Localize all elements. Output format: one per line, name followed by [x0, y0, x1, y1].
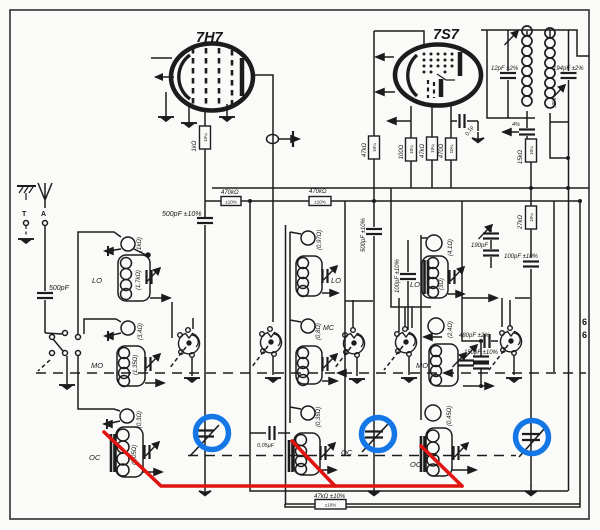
coupling loop 3.4: [121, 321, 135, 335]
svg-text:100Ω: 100Ω: [399, 144, 405, 159]
svg-text:190pF: 190pF: [471, 243, 488, 249]
capacitor 12pF: [507, 30, 509, 118]
rotary switch S2e: [500, 326, 522, 356]
resistors under 7S7: [369, 31, 457, 227]
capacitor 0.1u: [451, 121, 478, 131]
svg-text:10¼: 10¼: [430, 144, 435, 153]
svg-text:500pF ±10%: 500pF ±10%: [162, 211, 202, 218]
resistor 470k right: [309, 197, 331, 206]
wire grid3: [391, 188, 412, 328]
svg-text:±2%: ±2%: [552, 97, 558, 108]
coupling loop 0.3: [120, 409, 134, 423]
tube 7H7: [151, 44, 253, 111]
band switch S1 contacts: [38, 331, 81, 372]
coupling loop 4.1: [426, 235, 442, 251]
coupling loop 0.97: [301, 231, 315, 245]
svg-text:12pF ±2%: 12pF ±2%: [491, 66, 519, 72]
svg-text:6: 6: [582, 330, 587, 340]
svg-text:470kΩ: 470kΩ: [309, 189, 327, 195]
svg-text:7H7: 7H7: [196, 30, 224, 46]
svg-text:10¼: 10¼: [203, 133, 208, 142]
bus wire grid bias: [212, 187, 589, 189]
coil LO1: [118, 255, 150, 301]
coil MO3: [429, 344, 458, 386]
coil OC1 with core: [111, 427, 143, 477]
ground under switch: [66, 356, 68, 384]
svg-text:(3,4Ω): (3,4Ω): [138, 323, 144, 340]
svg-text:(0,97Ω): (0,97Ω): [317, 230, 323, 250]
wire AVC right drop: [462, 201, 483, 341]
trimmer C1 circled: [190, 425, 219, 456]
svg-text:(1kΩ): (1kΩ): [137, 237, 143, 252]
rotary switch S2d: [395, 327, 417, 357]
svg-text:(1,35Ω): (1,35Ω): [133, 355, 139, 375]
capacitor 100pF right: [523, 262, 539, 267]
svg-text:47kΩ: 47kΩ: [362, 142, 368, 157]
svg-text:(0,3Ω): (0,3Ω): [137, 411, 143, 428]
capacitor 0.05uF: [250, 432, 266, 434]
svg-text:LO: LO: [410, 280, 420, 289]
wire antenna down: [44, 226, 46, 291]
trimmer C3 circled: [519, 428, 545, 457]
svg-text:470kΩ: 470kΩ: [221, 190, 239, 196]
svg-text:47kΩ: 47kΩ: [420, 143, 426, 158]
ground right column: [525, 485, 537, 496]
svg-text:194pF ±2%: 194pF ±2%: [553, 66, 584, 72]
7S7 top cap wire: [374, 31, 424, 45]
wire mid verticals: [344, 201, 346, 455]
antenna A: [38, 183, 52, 208]
secondary winding L2: [545, 28, 555, 108]
resistor 47k bottom: [315, 500, 346, 510]
resistor 15k: [526, 139, 537, 206]
svg-text:(0,45Ω): (0,45Ω): [447, 406, 453, 426]
svg-text:LO: LO: [92, 276, 102, 285]
capacitor 100pF mid: [407, 240, 409, 272]
primary winding L1: [522, 26, 532, 106]
coil LO2: [296, 256, 322, 297]
svg-text:(3Ω): (3Ω): [439, 278, 445, 290]
wire to arrow right: [463, 385, 488, 387]
capacitor 500pF antenna: [37, 293, 53, 298]
resistor 27k: [526, 206, 537, 229]
ground mid column: [368, 485, 380, 496]
capacitor 500pF mid: [373, 236, 375, 486]
tube 7S7: [378, 45, 481, 106]
coil OC3 with core: [421, 428, 452, 476]
svg-text:7S7: 7S7: [433, 27, 460, 43]
trimmer cap LO1: [147, 270, 152, 284]
svg-text:±10%: ±10%: [325, 503, 336, 508]
wire rail OC1: [78, 356, 120, 411]
svg-text:10¼: 10¼: [409, 145, 414, 154]
svg-text:10¼: 10¼: [449, 144, 454, 153]
svg-text:A: A: [41, 211, 46, 218]
bottom rail wire: [285, 503, 315, 505]
svg-text:(0,8Ω): (0,8Ω): [316, 323, 322, 340]
svg-text:±10%: ±10%: [225, 200, 236, 205]
ground arrow LO1: [150, 297, 164, 299]
coupling loop 0.45: [425, 405, 441, 421]
coupling loop 1k: [121, 237, 135, 251]
svg-text:T: T: [22, 211, 27, 218]
rotary switch S2a: [178, 328, 200, 358]
bus wire AVC: [205, 200, 580, 202]
svg-text:27kΩ: 27kΩ: [518, 214, 524, 230]
earth terminal T: [17, 186, 36, 200]
svg-text:0,05μF: 0,05μF: [257, 443, 275, 449]
capacitor 500pF ±10%: [197, 218, 213, 223]
coil MO2: [296, 346, 322, 386]
resistor 470k left: [221, 197, 241, 206]
svg-text:(4,1Ω): (4,1Ω): [448, 239, 454, 256]
coil OC2 with core: [289, 433, 320, 475]
capacitor 4% under primary: [508, 118, 527, 139]
ground V1 column: [199, 485, 211, 496]
capacitor 194pF: [550, 30, 569, 122]
wire node B: [250, 201, 568, 491]
svg-text:(1,7kΩ): (1,7kΩ): [136, 270, 142, 290]
svg-text:500pF ±10%: 500pF ±10%: [361, 217, 367, 252]
IF transformer T1: [481, 26, 589, 158]
svg-text:MC: MC: [323, 325, 335, 332]
coil LO3 with core: [422, 256, 448, 298]
capacitor 190pF: [490, 229, 492, 232]
svg-text:LO: LO: [331, 276, 341, 285]
capacitors 150pF: [480, 341, 482, 356]
svg-text:MO: MO: [91, 361, 103, 370]
svg-text:470Ω: 470Ω: [439, 143, 445, 158]
svg-text:4%: 4%: [512, 122, 520, 128]
svg-text:500pF: 500pF: [49, 285, 70, 292]
chassis dashed line lower: [188, 455, 516, 457]
svg-text:10¼: 10¼: [372, 143, 377, 152]
wire rail MO1: [84, 319, 121, 334]
svg-text:6: 6: [582, 317, 587, 327]
coupling loop 2.4: [428, 318, 444, 334]
svg-text:15kΩ: 15kΩ: [518, 149, 524, 164]
svg-text:100pF ±10%: 100pF ±10%: [504, 254, 539, 260]
coil block 3 rail: [420, 235, 422, 420]
wire frame B+: [285, 201, 580, 507]
resistor R1 under 7H7: [200, 108, 211, 218]
coupling loop 0.36: [301, 406, 315, 420]
wire AVC arrows: [462, 297, 492, 299]
svg-text:47kΩ ±10%: 47kΩ ±10%: [314, 494, 346, 500]
coil block 2 rail: [289, 232, 291, 423]
capacitor 480pF: [485, 334, 490, 348]
coil MO1: [117, 346, 145, 387]
wire right rail: [568, 122, 570, 491]
svg-text:OC: OC: [89, 453, 101, 462]
wire rail LO1: [78, 232, 121, 334]
wire column V1 grid: [204, 225, 206, 486]
wire x554: [553, 201, 555, 372]
svg-text:(2,4Ω): (2,4Ω): [448, 321, 454, 338]
junction dots: [248, 156, 582, 203]
red annotation line: [104, 432, 462, 486]
svg-text:10¼: 10¼: [529, 213, 534, 222]
wire plate 7H7 to connector: [253, 75, 293, 322]
wire feed spade1: [171, 302, 173, 338]
svg-text:1kΩ: 1kΩ: [192, 140, 198, 151]
svg-text:OC: OC: [410, 460, 422, 469]
svg-text:(0,36Ω): (0,36Ω): [316, 407, 322, 427]
svg-text:±10%: ±10%: [314, 200, 325, 205]
trimmer C2 circled: [362, 424, 388, 452]
svg-text:MO: MO: [416, 361, 428, 370]
7H7 cathode/grid leads + grounds: [166, 92, 227, 123]
coupling loop 0.8 MC: [301, 319, 315, 333]
rotary switch S2b: [260, 327, 282, 357]
svg-text:100pF ±10%: 100pF ±10%: [395, 258, 401, 293]
chassis dashed line upper: [36, 372, 586, 374]
rotary switch S2c: [343, 328, 365, 358]
svg-text:10¼: 10¼: [529, 146, 534, 155]
svg-text:480pF ±2%: 480pF ±2%: [459, 333, 490, 339]
